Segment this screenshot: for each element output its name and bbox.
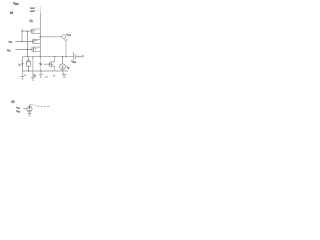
transistor M6 arrow <box>52 64 54 66</box>
transistor Q4 arrow <box>35 48 37 49</box>
node rail dot source top <box>62 56 63 57</box>
wire output arrow <box>64 38 67 56</box>
svg-text:IS: IS <box>19 64 22 66</box>
node output junction <box>40 36 42 38</box>
svg-text:vI1: vI1 <box>9 40 13 45</box>
ground G4 <box>62 71 66 78</box>
node junction bus2 top <box>27 30 28 31</box>
wire output <box>40 36 62 38</box>
terminal vO circle <box>62 35 66 39</box>
svg-text:+: + <box>73 52 75 54</box>
wire input bus 1 <box>21 29 23 41</box>
node M5 bottom <box>28 66 29 67</box>
wire M5 down <box>27 66 29 71</box>
transistor M5 rotated <box>26 57 31 66</box>
svg-text:Q7: Q7 <box>45 77 48 79</box>
current source I1 <box>60 64 66 70</box>
wire input bus 2 <box>27 31 29 57</box>
element E1 stripe top <box>30 7 35 9</box>
svg-text:VDD: VDD <box>71 61 76 64</box>
transistor Q2 <box>31 29 40 34</box>
wire source top <box>62 57 64 64</box>
wire gate Q2 <box>22 30 31 32</box>
wire gate M6 <box>44 63 50 65</box>
transistor Q4 <box>32 46 40 52</box>
transistor Q3 arrow <box>35 40 37 41</box>
source vI circle <box>27 106 32 111</box>
transistor M6 <box>50 57 55 71</box>
arrow current on left link <box>21 63 23 66</box>
wire input 1 <box>15 40 32 42</box>
wire upper rail <box>22 56 73 58</box>
svg-text:IQ: IQ <box>67 65 70 69</box>
node rail dot bus2 <box>27 56 28 57</box>
transistor M5 arrow <box>26 63 27 65</box>
ground G0 left link <box>21 71 24 80</box>
element E1 lead marks <box>36 6 38 8</box>
transistor Q2 arrow <box>34 30 36 31</box>
wire main column upper <box>39 13 41 57</box>
node bus1 bottom <box>21 41 22 42</box>
svg-text:Q8: Q8 <box>53 75 56 77</box>
ground Gb <box>28 112 31 117</box>
svg-text:vO2: vO2 <box>67 34 71 37</box>
svg-text:(b): (b) <box>11 100 14 104</box>
wire main column top faint <box>39 7 41 13</box>
svg-text:vI2: vI2 <box>7 48 11 53</box>
node lower rail M5 <box>28 70 29 71</box>
node rail dot main <box>40 56 41 57</box>
wire vI to circle <box>24 108 27 110</box>
svg-text:0: 0 <box>25 75 27 77</box>
wire source bottom <box>62 70 64 71</box>
svg-text:Q2: Q2 <box>29 18 33 22</box>
element E1 stripe bottom <box>30 10 35 12</box>
node rail dot M6 gate <box>54 56 55 57</box>
terminal end <box>82 55 84 57</box>
node bus1 gate junction <box>21 30 22 31</box>
wire main column lower <box>39 57 41 71</box>
node rail dot G1 <box>32 56 33 57</box>
svg-text:vB: vB <box>39 63 42 66</box>
ground G1 <box>31 57 34 80</box>
wire battery right <box>76 56 82 58</box>
wire circle top <box>29 105 33 106</box>
node bus2 on input2 <box>27 49 28 50</box>
node rail dot output branch <box>65 56 66 57</box>
wire input 2 <box>15 48 32 50</box>
svg-text:VDD: VDD <box>13 2 19 7</box>
wire dashes <box>35 104 37 107</box>
ground G2 <box>39 71 42 78</box>
svg-text:Q5: Q5 <box>34 75 37 77</box>
wire lower rail <box>22 70 68 72</box>
transistor Q3 <box>33 39 41 44</box>
wire left link <box>21 57 23 71</box>
svg-text:(a): (a) <box>10 10 13 14</box>
node lower rail main <box>40 70 42 72</box>
battery VDD plates <box>74 53 76 60</box>
